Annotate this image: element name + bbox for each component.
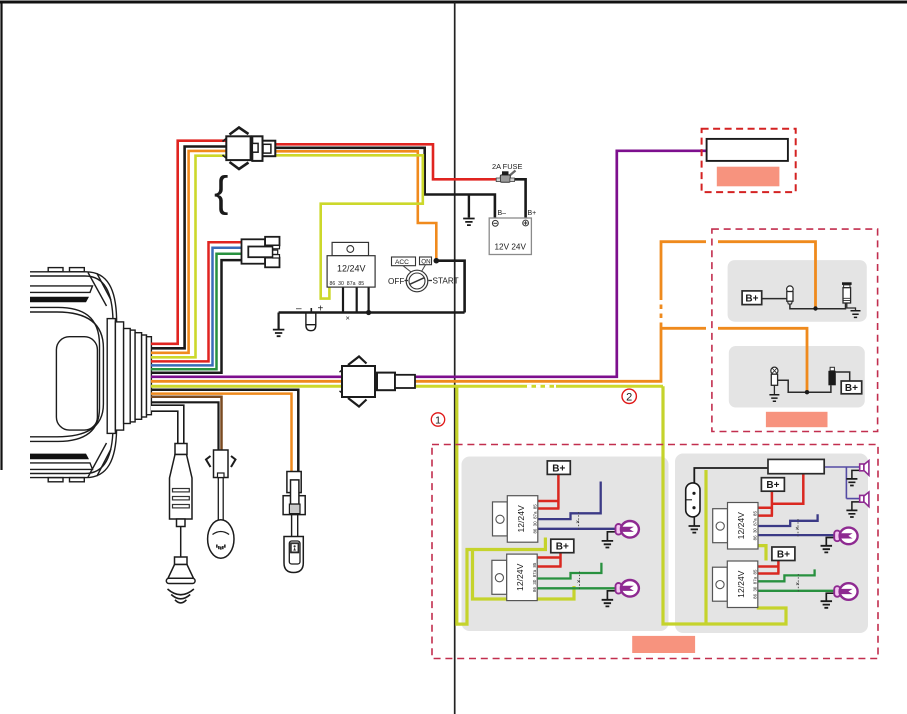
svg-text:×: × (795, 526, 799, 533)
svg-text:B+: B+ (556, 542, 569, 553)
svg-text:2A FUSE: 2A FUSE (492, 162, 522, 171)
svg-text:86 30 87a 85: 86 30 87a 85 (533, 504, 538, 534)
svg-text:B–: B– (498, 210, 507, 217)
svg-text:×: × (796, 581, 800, 588)
svg-text:12/24V: 12/24V (515, 563, 525, 591)
svg-text:B+: B+ (766, 480, 779, 491)
svg-text:86 30 87a 85: 86 30 87a 85 (753, 569, 758, 599)
svg-text:B+: B+ (777, 550, 790, 561)
svg-text:12/24V: 12/24V (337, 264, 366, 274)
svg-text:86 30 87a 85: 86 30 87a 85 (532, 562, 537, 592)
svg-text:OFF: OFF (388, 277, 404, 286)
svg-text:12/24V: 12/24V (736, 570, 746, 598)
svg-text:×: × (577, 579, 581, 586)
svg-text:ON: ON (421, 258, 430, 265)
svg-text:1: 1 (435, 414, 441, 426)
svg-text:START: START (433, 277, 459, 286)
svg-text:12/24V: 12/24V (736, 512, 746, 540)
svg-text:B+: B+ (528, 210, 537, 217)
svg-text:86 30 87a 85: 86 30 87a 85 (330, 281, 365, 287)
svg-text:{: { (214, 168, 228, 216)
svg-text:–: – (296, 304, 302, 315)
svg-text:×: × (576, 519, 580, 526)
svg-text:B+: B+ (845, 383, 858, 394)
svg-text:12V 24V: 12V 24V (495, 243, 527, 252)
svg-text:12/24V: 12/24V (516, 505, 526, 533)
svg-text:86 30 87a 85: 86 30 87a 85 (753, 510, 758, 540)
svg-text:×: × (346, 314, 350, 323)
svg-text:B+: B+ (552, 463, 565, 474)
svg-text:+: + (318, 304, 324, 315)
svg-text:ACC: ACC (395, 259, 409, 266)
svg-text:B+: B+ (745, 294, 758, 305)
svg-text:2: 2 (626, 391, 632, 403)
